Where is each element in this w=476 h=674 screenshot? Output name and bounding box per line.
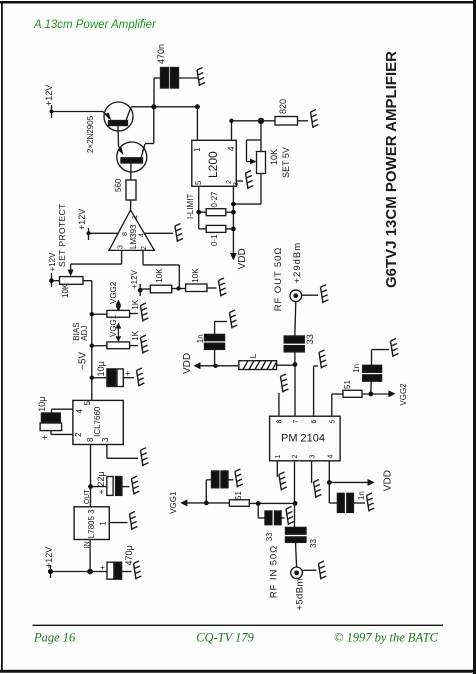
svg-text:+: + xyxy=(123,371,133,376)
svg-text:OUT: OUT xyxy=(84,489,91,505)
svg-text:10μ: 10μ xyxy=(37,396,47,411)
svg-text:+12V: +12V xyxy=(44,547,54,568)
svg-text:1n: 1n xyxy=(196,334,205,343)
svg-text:5: 5 xyxy=(83,401,92,406)
svg-text:VGG2: VGG2 xyxy=(399,383,408,406)
svg-text:1K: 1K xyxy=(131,299,140,309)
svg-text:3: 3 xyxy=(101,437,110,442)
svg-text:2×2N2905: 2×2N2905 xyxy=(86,115,95,153)
svg-text:RF OUT 50Ω: RF OUT 50Ω xyxy=(273,247,284,312)
svg-text:+: + xyxy=(40,435,50,440)
svg-text:+: + xyxy=(97,489,106,494)
svg-text:L200: L200 xyxy=(206,151,220,178)
svg-text:+12V: +12V xyxy=(130,269,139,289)
svg-text:+: + xyxy=(98,565,107,570)
svg-text:PM 2104: PM 2104 xyxy=(281,433,325,445)
svg-text:33: 33 xyxy=(265,532,274,541)
svg-text:10K: 10K xyxy=(191,268,200,283)
svg-text:51: 51 xyxy=(343,380,352,389)
svg-text:5: 5 xyxy=(330,420,337,424)
svg-text:VGG1: VGG1 xyxy=(169,491,178,514)
svg-text:VGG2: VGG2 xyxy=(109,281,118,304)
svg-text:4: 4 xyxy=(227,146,236,151)
svg-text:470n: 470n xyxy=(156,44,166,64)
svg-text:1: 1 xyxy=(132,215,139,219)
svg-text:1: 1 xyxy=(99,521,108,526)
svg-text:+12V: +12V xyxy=(48,252,57,272)
svg-text:CQ-TV 179: CQ-TV 179 xyxy=(196,631,255,645)
svg-text:ICL7660: ICL7660 xyxy=(93,406,102,437)
svg-text:4: 4 xyxy=(139,233,146,237)
svg-text:10K: 10K xyxy=(269,149,279,165)
svg-text:8: 8 xyxy=(122,232,129,236)
svg-text:1K: 1K xyxy=(131,330,140,340)
svg-text:33: 33 xyxy=(309,538,318,547)
svg-text:G6TVJ 13CM POWER AMPLIFIER: G6TVJ 13CM POWER AMPLIFIER xyxy=(383,51,400,288)
svg-text:2: 2 xyxy=(74,432,83,437)
svg-text:L: L xyxy=(249,353,258,358)
svg-text:IN: IN xyxy=(84,541,91,548)
svg-text:1: 1 xyxy=(275,455,282,459)
svg-text:2: 2 xyxy=(226,180,233,184)
svg-text:L7805 3: L7805 3 xyxy=(87,509,96,538)
svg-text:VGG1: VGG1 xyxy=(109,314,118,337)
svg-text:3: 3 xyxy=(118,245,125,249)
svg-text:8: 8 xyxy=(86,437,95,442)
svg-text:7: 7 xyxy=(293,420,300,424)
svg-text:10K: 10K xyxy=(155,268,164,283)
svg-text:4: 4 xyxy=(328,455,335,459)
svg-text:0·1: 0·1 xyxy=(210,234,219,246)
svg-text:22μ: 22μ xyxy=(96,471,106,486)
svg-text:33: 33 xyxy=(305,334,315,344)
svg-text:SET 5V: SET 5V xyxy=(281,147,291,178)
svg-text:2: 2 xyxy=(141,246,148,250)
svg-text:820: 820 xyxy=(278,99,288,114)
svg-text:1: 1 xyxy=(193,147,202,152)
svg-text:5: 5 xyxy=(194,180,203,185)
svg-text:4: 4 xyxy=(75,409,84,414)
svg-text:© 1997 by the BATC: © 1997 by the BATC xyxy=(334,631,439,645)
svg-text:51: 51 xyxy=(234,491,243,500)
svg-text:0·27: 0·27 xyxy=(210,191,219,208)
svg-text:1n: 1n xyxy=(352,364,361,373)
svg-text:3: 3 xyxy=(233,182,240,186)
svg-text:6: 6 xyxy=(311,420,318,424)
svg-text:+5dBm: +5dBm xyxy=(295,578,306,610)
svg-text:8: 8 xyxy=(277,420,284,424)
svg-text:10μ: 10μ xyxy=(96,361,106,376)
svg-text:VDD: VDD xyxy=(237,248,248,269)
svg-text:Page 16: Page 16 xyxy=(33,631,76,645)
svg-text:+12V: +12V xyxy=(77,209,87,230)
svg-text:ADJ: ADJ xyxy=(80,326,89,341)
svg-text:+12V: +12V xyxy=(44,85,54,106)
svg-text:I-LIMIT: I-LIMIT xyxy=(186,194,195,219)
svg-text:VDD: VDD xyxy=(182,353,193,374)
svg-text:3: 3 xyxy=(310,455,317,459)
svg-text:−5V: −5V xyxy=(78,352,89,370)
svg-text:LM393: LM393 xyxy=(129,224,138,249)
svg-text:560: 560 xyxy=(114,178,123,192)
svg-text:VDD: VDD xyxy=(383,470,394,491)
svg-text:A 13cm Power Amplifier: A 13cm Power Amplifier xyxy=(33,19,157,31)
svg-text:1n: 1n xyxy=(357,491,366,500)
svg-text:+29dBm: +29dBm xyxy=(292,242,303,284)
svg-text:470μ: 470μ xyxy=(124,545,134,565)
svg-text:2: 2 xyxy=(292,455,299,459)
svg-text:RF IN 50Ω: RF IN 50Ω xyxy=(269,545,280,598)
svg-text:SET PROTECT: SET PROTECT xyxy=(57,203,67,267)
svg-text:10K: 10K xyxy=(61,283,70,298)
